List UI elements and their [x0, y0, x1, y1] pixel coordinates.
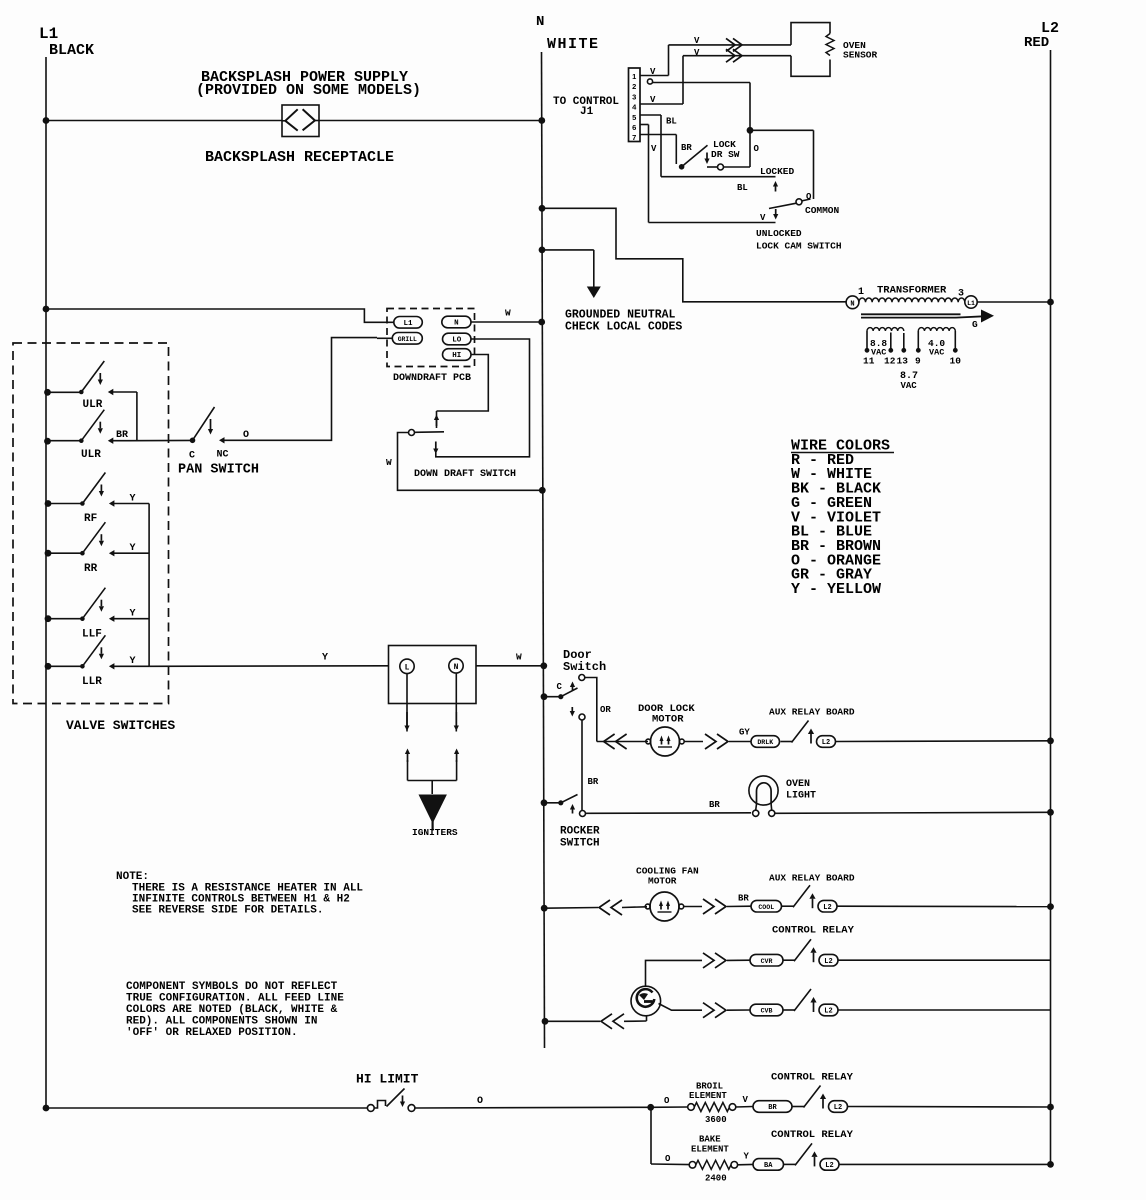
- wire J1 pin2 orange to lock node: [647, 79, 652, 84]
- svg-text:BL: BL: [737, 183, 748, 193]
- relay contact COOL: [751, 900, 782, 912]
- svg-text:CONTROL RELAY: CONTROL RELAY: [772, 925, 855, 937]
- svg-text:V: V: [743, 1095, 749, 1105]
- relay contact CVB: [703, 1003, 714, 1018]
- wire transformer to L2: [977, 301, 1050, 303]
- svg-text:BR: BR: [738, 894, 749, 904]
- svg-text:W: W: [386, 457, 392, 468]
- node lock circuit junction: [747, 127, 754, 134]
- wire door switch to motor row: [585, 678, 597, 742]
- svg-text:TRANSFORMER: TRANSFORMER: [877, 285, 947, 297]
- switch pan: [190, 438, 196, 444]
- svg-text:L2: L2: [823, 904, 831, 912]
- svg-text:Y: Y: [130, 543, 136, 554]
- svg-text:WHITE: WHITE: [547, 36, 600, 53]
- svg-text:O: O: [243, 430, 249, 441]
- svg-text:2: 2: [632, 82, 636, 91]
- svg-text:IGNITERS: IGNITERS: [412, 827, 458, 838]
- switch hi limit: [367, 1105, 374, 1112]
- svg-text:MOTOR: MOTOR: [652, 714, 684, 726]
- svg-text:LOCK CAM SWITCH: LOCK CAM SWITCH: [756, 241, 842, 252]
- wire lock node to cam switch: [750, 129, 814, 131]
- svg-text:DOWN DRAFT SWITCH: DOWN DRAFT SWITCH: [414, 469, 516, 480]
- svg-text:BACKSPLASH RECEPTACLE: BACKSPLASH RECEPTACLE: [205, 149, 394, 166]
- svg-text:OVEN: OVEN: [786, 779, 810, 790]
- wire J1 pin7 brown to lock door switch: [640, 134, 676, 136]
- switch lock door: [679, 164, 685, 170]
- wire COOL L2 to bus: [837, 905, 1051, 907]
- svg-text:'OFF' OR RELAXED POSITION.: 'OFF' OR RELAXED POSITION.: [126, 1027, 298, 1039]
- junction N backsplash: [538, 117, 545, 124]
- svg-text:L2: L2: [824, 1008, 832, 1016]
- wire J1 pin5 blue to locked contact: [640, 114, 661, 116]
- svg-text:Y: Y: [130, 656, 136, 667]
- junction L2 oven light: [1047, 809, 1054, 816]
- svg-text:5: 5: [632, 113, 636, 122]
- svg-text:L2: L2: [825, 1162, 833, 1170]
- svg-text:COLORS ARE NOTED (BLACK, WHITE: COLORS ARE NOTED (BLACK, WHITE &: [126, 1004, 338, 1016]
- svg-text:10: 10: [950, 356, 962, 367]
- svg-text:12: 12: [884, 356, 896, 367]
- relay contact CVR: [703, 953, 714, 968]
- svg-text:LO: LO: [452, 337, 462, 345]
- switch ULR lower: [44, 438, 51, 445]
- svg-text:BROIL: BROIL: [696, 1082, 723, 1092]
- junction broil bake split: [647, 1104, 654, 1111]
- wire pan switch to grill: [225, 338, 378, 441]
- wire clock to CVR row: [646, 960, 703, 985]
- svg-text:O: O: [665, 1154, 671, 1164]
- svg-text:W: W: [516, 652, 522, 663]
- wire clock to CVB row: [659, 1004, 703, 1011]
- svg-text:Y: Y: [130, 609, 136, 620]
- cooling fan motor M2: [544, 907, 598, 910]
- svg-text:AUX RELAY BOARD: AUX RELAY BOARD: [769, 873, 855, 884]
- junction L2 door lock: [1047, 737, 1054, 744]
- svg-text:N: N: [850, 300, 854, 308]
- svg-text:COMPONENT SYMBOLS DO NOT REFLE: COMPONENT SYMBOLS DO NOT REFLECT: [126, 981, 338, 993]
- svg-text:V: V: [760, 213, 766, 223]
- wire pcb N to neutral: [471, 321, 542, 323]
- transformer secondary 4.0VAC: [917, 331, 919, 350]
- bake element R2 2400W: [689, 1162, 696, 1169]
- switch RF: [45, 500, 52, 507]
- igniter connector box: [389, 646, 477, 704]
- svg-text:SEE REVERSE SIDE FOR DETAILS.: SEE REVERSE SIDE FOR DETAILS.: [132, 905, 323, 917]
- svg-text:2400: 2400: [705, 1174, 727, 1184]
- svg-text:DOWNDRAFT PCB: DOWNDRAFT PCB: [393, 373, 471, 384]
- svg-text:O: O: [754, 144, 760, 154]
- wire hi limit to elements: [415, 1106, 651, 1109]
- svg-text:L1: L1: [404, 320, 414, 328]
- svg-text:BAKE: BAKE: [699, 1135, 721, 1145]
- svg-text:BL: BL: [666, 117, 677, 127]
- svg-text:C: C: [189, 451, 195, 462]
- svg-text:CHECK LOCAL CODES: CHECK LOCAL CODES: [565, 321, 682, 334]
- switch down draft: [409, 430, 415, 436]
- svg-text:SWITCH: SWITCH: [560, 838, 600, 850]
- svg-text:O: O: [664, 1096, 670, 1106]
- svg-text:J1: J1: [580, 106, 594, 118]
- svg-text:Y: Y: [130, 494, 136, 505]
- igniters arrow: [419, 795, 447, 824]
- wire N bus: [542, 52, 545, 1048]
- svg-text:LLR: LLR: [82, 676, 102, 688]
- svg-text:PAN SWITCH: PAN SWITCH: [178, 463, 259, 478]
- svg-text:RED: RED: [1024, 35, 1049, 51]
- svg-text:BR: BR: [709, 800, 720, 810]
- svg-text:L2: L2: [822, 739, 830, 747]
- wire L1 to hi limit: [46, 1107, 367, 1109]
- oven sensor RT1: [791, 23, 830, 45]
- wire rocker to oven light: [586, 812, 752, 815]
- junction N clock: [542, 1018, 549, 1025]
- switch door: [541, 693, 548, 700]
- wire L1 bus: [45, 57, 47, 1108]
- svg-text:ROCKER: ROCKER: [560, 826, 600, 838]
- svg-text:ULR: ULR: [81, 449, 101, 461]
- svg-text:HI LIMIT: HI LIMIT: [356, 1072, 419, 1087]
- svg-text:ELEMENT: ELEMENT: [689, 1091, 727, 1101]
- switch LLF: [45, 615, 52, 622]
- wire pcb LO to downdraft switch: [436, 339, 530, 457]
- svg-text:6: 6: [632, 123, 636, 132]
- svg-text:GY: GY: [739, 728, 750, 738]
- svg-text:G: G: [972, 319, 978, 330]
- junction N pcb: [538, 319, 545, 326]
- svg-text:VAC: VAC: [929, 348, 944, 358]
- clock motor: [631, 986, 661, 1016]
- wire DRLK L2 to bus: [836, 740, 1051, 743]
- svg-text:VALVE SWITCHES: VALVE SWITCHES: [66, 718, 175, 733]
- door lock motor M1: [604, 734, 615, 749]
- svg-text:3600: 3600: [705, 1115, 727, 1125]
- wire LLR to igniter box: [149, 665, 389, 668]
- svg-text:13: 13: [897, 356, 909, 367]
- svg-text:BR: BR: [588, 777, 599, 787]
- svg-text:7: 7: [632, 133, 636, 142]
- junction L1 backsplash: [43, 117, 50, 124]
- svg-text:L2: L2: [834, 1104, 842, 1112]
- junction L1 bottom: [43, 1105, 50, 1112]
- wire door switch brown to rocker: [581, 720, 583, 811]
- svg-text:DRLK: DRLK: [757, 739, 773, 746]
- svg-text:N: N: [536, 14, 544, 30]
- wire grounded neutral stub: [542, 249, 594, 251]
- junction L2 broil: [1047, 1104, 1054, 1111]
- svg-text:ELEMENT: ELEMENT: [691, 1145, 729, 1155]
- svg-text:BA: BA: [764, 1162, 773, 1170]
- junction N down draft: [539, 487, 546, 494]
- switch RR: [45, 550, 52, 557]
- junction L2 cooling fan: [1047, 903, 1054, 910]
- svg-text:L1: L1: [39, 25, 58, 43]
- wire CVB L2 to bus: [838, 1009, 1051, 1011]
- wire N to transformer: [542, 208, 846, 301]
- relay contact bake BA: [753, 1159, 784, 1171]
- wire J1 pin6 violet to common: [640, 124, 649, 126]
- svg-text:NOTE:: NOTE:: [116, 871, 149, 883]
- wire valve output bus: [148, 504, 150, 667]
- wire broil L2 to bus: [848, 1106, 1051, 1109]
- switch ULR upper: [44, 389, 51, 396]
- connector J1: [629, 68, 641, 142]
- igniter plug disconnects: [405, 749, 410, 755]
- svg-text:BR: BR: [681, 143, 692, 153]
- svg-text:AUX RELAY BOARD: AUX RELAY BOARD: [769, 707, 855, 718]
- wire igniter N lead: [455, 673, 457, 732]
- svg-text:Y: Y: [322, 653, 328, 664]
- svg-text:SENSOR: SENSOR: [843, 50, 878, 61]
- switch rocker: [541, 799, 548, 806]
- svg-text:L: L: [405, 664, 410, 673]
- svg-text:Y: Y: [744, 1152, 750, 1162]
- wire L1 to downdraft pcb: [46, 309, 394, 322]
- junction N grounded neutral: [539, 247, 546, 254]
- svg-text:RF: RF: [84, 513, 97, 525]
- junction N cooling fan: [541, 905, 548, 912]
- wire N to clock: [545, 1020, 600, 1022]
- svg-text:LLF: LLF: [82, 629, 102, 641]
- svg-text:BR: BR: [116, 430, 128, 441]
- valve switches enclosure: [13, 343, 169, 704]
- svg-text:1: 1: [632, 72, 636, 81]
- svg-text:Switch: Switch: [563, 660, 606, 674]
- svg-text:BLACK: BLACK: [49, 42, 94, 59]
- svg-text:CONTROL RELAY: CONTROL RELAY: [771, 1129, 854, 1141]
- svg-text:OR: OR: [600, 705, 611, 715]
- oven light: [749, 776, 778, 805]
- svg-text:L1: L1: [967, 300, 975, 307]
- svg-text:TRUE CONFIGURATION. ALL FEED L: TRUE CONFIGURATION. ALL FEED LINE: [126, 993, 344, 1005]
- svg-text:LOCKED: LOCKED: [760, 166, 795, 177]
- svg-text:11: 11: [863, 356, 875, 367]
- svg-text:C: C: [557, 682, 563, 692]
- svg-text:MOTOR: MOTOR: [648, 876, 677, 887]
- svg-text:V: V: [694, 36, 700, 46]
- svg-text:Y - YELLOW: Y - YELLOW: [791, 581, 881, 598]
- svg-text:HI: HI: [452, 352, 461, 360]
- switch lock cam: [796, 199, 802, 205]
- wire pcb HI to downdraft switch: [437, 355, 489, 412]
- connector break sensor wires: [726, 38, 735, 51]
- transformer secondary 8.8VAC: [866, 331, 868, 350]
- svg-text:V: V: [651, 144, 657, 154]
- svg-text:1: 1: [858, 287, 864, 298]
- svg-text:L2: L2: [824, 958, 832, 966]
- junction L2 bake: [1047, 1161, 1054, 1168]
- wire down draft switch to neutral: [398, 433, 543, 491]
- junction L1 pcb feed: [43, 306, 50, 313]
- wire J1 pin1 violet to sensor: [640, 75, 669, 77]
- wire igniter common: [408, 780, 457, 782]
- svg-text:N: N: [454, 663, 459, 672]
- svg-text:V: V: [650, 67, 656, 77]
- svg-text:W: W: [505, 308, 511, 319]
- svg-text:(PROVIDED ON SOME MODELS): (PROVIDED ON SOME MODELS): [196, 82, 421, 99]
- svg-text:ULR: ULR: [83, 399, 103, 411]
- wire split to bake row: [650, 1107, 652, 1164]
- svg-text:V: V: [650, 95, 656, 105]
- wire bake L2 to bus: [839, 1163, 1051, 1165]
- relay contact broil BR: [753, 1101, 792, 1113]
- downdraft PCB: [387, 309, 475, 367]
- svg-text:3: 3: [632, 92, 636, 101]
- relay contact DRLK: [751, 736, 780, 748]
- svg-text:RR: RR: [84, 563, 98, 575]
- svg-text:CVR: CVR: [761, 958, 773, 965]
- junction N igniter: [540, 662, 547, 669]
- junction L2 transformer: [1047, 299, 1054, 306]
- svg-text:O: O: [806, 192, 812, 202]
- wire CVR L2 to bus: [838, 959, 1051, 961]
- svg-text:O: O: [477, 1096, 483, 1107]
- svg-text:COMMON: COMMON: [805, 205, 840, 216]
- wire L2 bus: [1050, 50, 1052, 1165]
- receptacle backsplash outlet: [282, 105, 319, 137]
- svg-text:DR SW: DR SW: [711, 149, 740, 160]
- svg-text:NC: NC: [217, 450, 229, 461]
- transformer core: [861, 313, 961, 315]
- svg-text:UNLOCKED: UNLOCKED: [756, 228, 802, 239]
- wire igniter box to neutral: [476, 665, 544, 667]
- svg-text:V: V: [694, 48, 700, 58]
- junction N to transformer: [539, 205, 546, 212]
- svg-text:RED). ALL COMPONENTS SHOWN IN: RED). ALL COMPONENTS SHOWN IN: [126, 1016, 317, 1028]
- wire backsplash supply: [46, 120, 282, 122]
- svg-text:GRILL: GRILL: [398, 336, 417, 343]
- svg-text:COOL: COOL: [758, 904, 774, 911]
- wire igniter L lead: [406, 674, 408, 732]
- wire oven light to L2: [775, 812, 1051, 813]
- svg-text:N: N: [454, 320, 459, 328]
- wire J1 pin3 violet to sensor: [640, 103, 683, 105]
- svg-text:CVB: CVB: [761, 1008, 773, 1015]
- svg-text:9: 9: [915, 356, 921, 367]
- svg-text:LIGHT: LIGHT: [786, 791, 816, 802]
- svg-text:BR: BR: [768, 1104, 777, 1112]
- svg-text:VAC: VAC: [901, 381, 918, 391]
- svg-text:CONTROL RELAY: CONTROL RELAY: [771, 1072, 854, 1084]
- switch LLR: [45, 663, 52, 670]
